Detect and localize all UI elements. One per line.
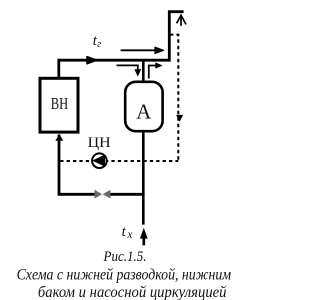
open vent arrow (up) at top right [177,15,186,25]
valve (grey bowtie) [95,190,110,199]
boiler BH box [40,78,78,132]
svg-text:ЦН: ЦН [88,135,111,151]
cold water inlet arrow (up) [142,237,145,245]
flow arrowhead (down) on dashed line [176,115,183,122]
wire: supply main from BH top, up-right riser and top elbow [59,12,184,78]
svg-text:tг: tг [93,33,101,50]
svg-text:tх: tх [122,224,134,241]
flow arrow into tank (down) [117,65,138,69]
svg-text:А: А [136,100,152,124]
pump CN circle [92,153,107,168]
wire: flow arrow above main toward right riser [121,49,157,51]
wire: pipe from tank bottom down to cold inlet [142,131,145,225]
svg-text:Рис.1.5.: Рис.1.5. [103,249,147,265]
svg-text:Схема с нижней разводкой, нижн: Схема с нижней разводкой, нижним [17,267,232,284]
wire: return line from BH bottom down-left corner and to tee [59,135,145,195]
tank A vessel [125,82,162,131]
svg-text:баком и насосной циркуляцией: баком и насосной циркуляцией [38,284,227,300]
arrowhead on supply main [87,57,97,64]
wire: dashed expansion line from riser down to pump line [170,35,178,161]
wire: tank connection pipe from main down to tank top [142,62,145,83]
svg-text:ВН: ВН [51,94,68,113]
flow arrow out of tank (up then right) [149,66,157,79]
pump rotor triangle (points left) [92,154,105,166]
wire: dotted pump suction/discharge line [60,160,178,162]
flow arrowhead (up) into BH bottom [55,134,63,141]
